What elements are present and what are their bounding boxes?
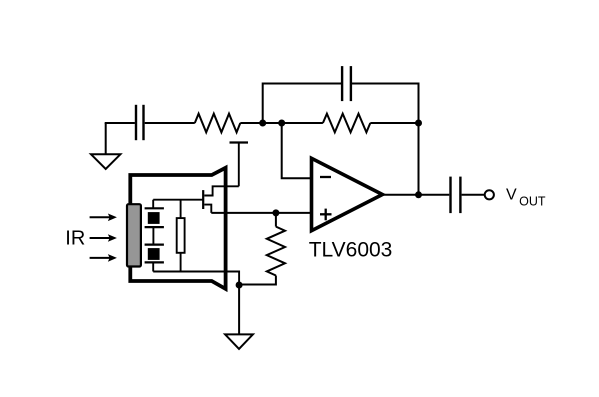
IR arrow 2 — [90, 234, 117, 242]
resistor R-GATE (sensor internal, box symbol) — [177, 218, 185, 253]
pyro element 1 top plate — [145, 207, 164, 209]
op-amp U1 TLV6003 — [312, 158, 383, 230]
op-amp plus pin marker — [320, 209, 332, 221]
wire sensor internal bottom rail — [153, 272, 239, 286]
resistor R-IN (input) — [195, 114, 241, 133]
power rail bar — [230, 141, 249, 143]
wire sensor internal top rail (gate rail) — [153, 199, 203, 201]
wire between pyro elements — [152, 227, 154, 245]
pyro element 2 body — [148, 248, 160, 260]
wire ground to input capacitor — [105, 122, 135, 124]
transistor Q1 source stub — [204, 205, 211, 213]
node C (feedback resistor / right leg junction) — [415, 120, 422, 127]
capacitor C-IN (input coupling) — [136, 105, 144, 140]
wire feedback resistor to right leg — [370, 122, 418, 124]
resistor R-FB (feedback) — [323, 114, 370, 133]
svg-text:TLV6003: TLV6003 — [309, 239, 393, 262]
svg-text:VOUT: VOUT — [506, 187, 546, 209]
ground (left, input coupling) — [91, 123, 120, 169]
node D (non-inverting input junction) — [272, 209, 279, 216]
pyro element 2 bottom plate — [145, 261, 164, 263]
wire gate resistor bottom lead — [180, 253, 182, 272]
wire output capacitor to terminal — [462, 194, 484, 196]
node A (feedback-cap tap junction) — [259, 120, 266, 127]
IR window (gray) — [127, 204, 141, 266]
wire element stack bottom lead — [152, 262, 154, 271]
transistor Q1 (sensor JFET) gate bar — [202, 190, 204, 209]
pyro element 1 bottom plate — [145, 226, 164, 228]
svg-text:IR: IR — [65, 227, 85, 249]
wire feedback loop top right — [352, 84, 419, 195]
pyro element 1 body — [148, 212, 160, 224]
op-amp minus pin marker — [320, 176, 331, 178]
capacitor C-OUT (output coupling) — [451, 177, 461, 214]
terminal VOUT (open circle) — [485, 190, 494, 199]
wire inverting input drop — [282, 123, 311, 178]
wire element stack top lead — [152, 200, 154, 209]
wire feedback loop left leg — [263, 84, 342, 124]
node B (inverting input junction) — [278, 120, 285, 127]
wire op-amp output — [380, 194, 449, 196]
IR arrow 1 — [90, 214, 117, 222]
wire gate resistor top lead — [180, 200, 182, 218]
node E (sensor ground junction) — [236, 282, 243, 289]
pyro element 2 top plate — [145, 244, 164, 246]
capacitor C-FB (feedback) — [342, 66, 351, 101]
wire input capacitor to input resistor — [145, 122, 195, 124]
pyroelectric sensor module case — [130, 168, 225, 289]
power rail stub (drain bias) — [238, 143, 240, 187]
transistor Q1 drain stub — [204, 186, 239, 195]
resistor R-S (source load to ground) — [239, 213, 285, 285]
node F (output junction) — [415, 191, 422, 198]
IR arrow 3 — [90, 254, 117, 262]
wire input resistor to inverting node — [240, 122, 323, 124]
wire source to non-inverting input — [211, 212, 311, 214]
ground (sensor/source) — [225, 285, 253, 349]
